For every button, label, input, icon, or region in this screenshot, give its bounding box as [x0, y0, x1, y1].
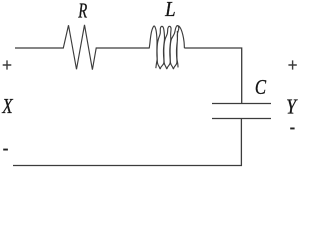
svg-text:L: L — [164, 0, 175, 21]
svg-text:C: C — [255, 75, 267, 99]
svg-text:R: R — [78, 0, 88, 22]
svg-text:Y: Y — [286, 94, 298, 118]
svg-text:X: X — [1, 94, 13, 118]
